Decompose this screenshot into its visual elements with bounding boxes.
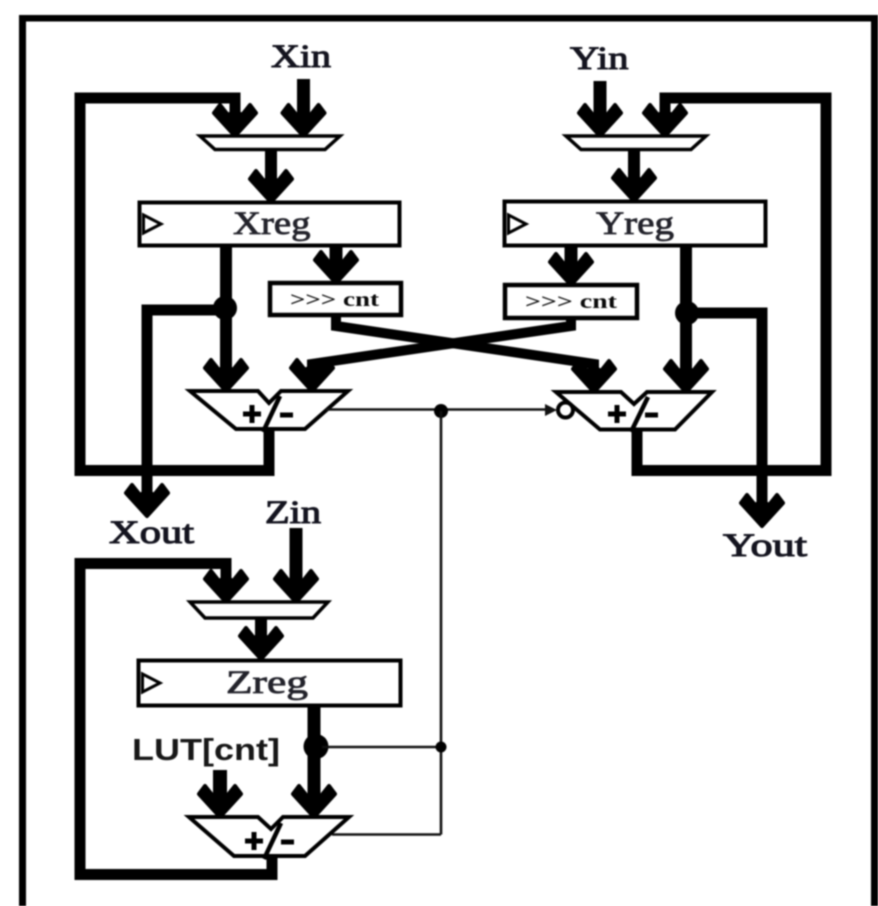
wire Y mux to Yreg [628, 150, 640, 185]
svg-text:Xin: Xin [271, 39, 331, 75]
wire sign wire from left ALU to bubble [326, 408, 547, 411]
wire X feedback loop [80, 98, 269, 471]
svg-text:Yin: Yin [570, 41, 629, 77]
op right ALU +/- [556, 392, 712, 430]
node junction dot Y [675, 301, 699, 325]
wire sign vertical [440, 411, 443, 835]
node sign dot [434, 404, 448, 418]
wire Xreg to left ALU [220, 246, 232, 370]
node junction dot X [213, 296, 237, 320]
wire Xin input [297, 79, 310, 118]
svg-text:>>> cnt: >>> cnt [525, 291, 617, 313]
node junction dot Z [304, 734, 329, 759]
mux X [200, 136, 340, 150]
mux Z [190, 602, 328, 618]
svg-text:>>> cnt: >>> cnt [290, 289, 379, 311]
register Zreg [139, 661, 401, 706]
wire Y feedback loop [637, 98, 826, 471]
wire Y shifter diagonal to left ALU [312, 318, 571, 371]
wire Zreg to Z ALU [308, 706, 321, 795]
wire X mux to Xreg [265, 150, 277, 186]
wire Xout branch [147, 310, 228, 492]
wire LUT input [213, 770, 227, 796]
wire Z feedback loop [80, 564, 272, 875]
wire X shifter diagonal to right ALU [336, 315, 594, 372]
node inverter bubble on right ALU [558, 403, 573, 418]
svg-text:Yreg: Yreg [596, 206, 674, 242]
wire Z ALU output stub [267, 856, 278, 872]
wire Zin input [290, 528, 303, 584]
svg-text:Zreg: Zreg [226, 665, 308, 701]
shifter X [270, 283, 401, 315]
svg-text:LUT[cnt]: LUT[cnt] [132, 732, 280, 767]
node X feedback arrow into mux [214, 105, 256, 136]
mux Y [566, 136, 706, 150]
svg-text:Xout: Xout [109, 515, 194, 551]
wire Yin input [594, 81, 607, 118]
wire Yout branch [684, 313, 762, 502]
svg-text:Zin: Zin [265, 495, 321, 531]
wire sign to Z ALU corner [332, 833, 441, 836]
register Xreg [140, 203, 400, 246]
svg-text:Yout: Yout [723, 528, 807, 564]
svg-text:Xreg: Xreg [233, 206, 311, 242]
register Yreg [505, 202, 766, 246]
wire Yreg to shifter [565, 246, 578, 268]
wire Xreg to shifter [330, 246, 343, 266]
shifter Y [505, 285, 637, 318]
wire Z mux to Zreg [255, 618, 267, 643]
wire right ALU output loop start [632, 429, 643, 470]
wire Yreg to right ALU [680, 246, 692, 370]
op left ALU +/- [190, 391, 348, 429]
op Z ALU +/- [189, 817, 349, 856]
wire left ALU output loop start [264, 429, 275, 470]
wire sign tap to Zreg output [322, 746, 441, 749]
